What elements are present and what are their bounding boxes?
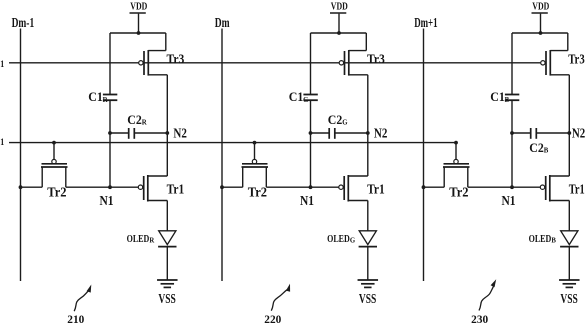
wire Tr2 to N1 to Tr1 gate (220) bbox=[266, 186, 339, 188]
svg-text:VDD: VDD bbox=[331, 1, 348, 12]
VSS ground (220) bbox=[358, 280, 379, 306]
svg-text:Tr3: Tr3 bbox=[167, 51, 185, 66]
svg-text:210: 210 bbox=[67, 314, 84, 323]
wire top rail (230) bbox=[512, 33, 568, 95]
data line D column (220) bbox=[215, 16, 230, 281]
capacitor C1B (230) bbox=[490, 89, 519, 104]
reference numeral 220 with arrow bbox=[264, 284, 290, 323]
svg-text:VDD: VDD bbox=[130, 1, 147, 12]
VDD supply (230) bbox=[532, 1, 550, 33]
wire C1G to N1 (220) bbox=[310, 100, 312, 187]
reference numeral 230 with arrow bbox=[471, 279, 496, 323]
svg-text:OLED: OLED bbox=[529, 233, 552, 245]
node N2 (220) bbox=[366, 125, 388, 140]
wire C1R to N1 (210) bbox=[109, 100, 111, 187]
svg-text:B: B bbox=[505, 97, 510, 104]
svg-text:N1: N1 bbox=[100, 193, 114, 208]
wire data line to Tr2 (230) bbox=[424, 186, 445, 188]
svg-text:Tr2: Tr2 bbox=[449, 185, 468, 200]
Tr2 gate tap dot (210) bbox=[52, 141, 56, 145]
svg-text:N1: N1 bbox=[300, 193, 314, 208]
VDD supply (220) bbox=[330, 1, 348, 33]
svg-text:Tr3: Tr3 bbox=[568, 51, 585, 66]
node N2 (210) bbox=[165, 125, 187, 140]
svg-text:1: 1 bbox=[0, 138, 4, 148]
transistor Tr3 (210) bbox=[139, 50, 185, 76]
svg-text:C2: C2 bbox=[529, 140, 544, 155]
wire data line to Tr2 (210) bbox=[21, 186, 43, 188]
OLEDR diode (210) bbox=[127, 231, 177, 247]
svg-text:N1: N1 bbox=[502, 193, 516, 208]
svg-text:B: B bbox=[551, 238, 556, 245]
svg-text:Tr1: Tr1 bbox=[367, 182, 385, 197]
scan line 2 (select line) bbox=[9, 142, 456, 144]
wire Tr1 to OLEDR (210) bbox=[166, 201, 168, 231]
reference numeral 210 with arrow bbox=[67, 285, 91, 323]
svg-text:Dm: Dm bbox=[215, 16, 230, 31]
svg-text:C1: C1 bbox=[490, 89, 505, 104]
VDD junction dot (210) bbox=[137, 31, 141, 35]
wire Tr3 drain to N2 to Tr1 (230) bbox=[568, 75, 570, 176]
Tr2 gate tap dot (220) bbox=[253, 141, 257, 145]
wire OLEDR to VSS (210) bbox=[166, 247, 168, 280]
svg-text:Tr3: Tr3 bbox=[367, 51, 385, 66]
junction dot C2B left (230) bbox=[510, 131, 514, 135]
capacitor C2G (220) bbox=[311, 112, 368, 139]
wire Tr2 to N1 to Tr1 gate (230) bbox=[468, 186, 541, 188]
junction dot C2R left (210) bbox=[108, 131, 112, 135]
transistor Tr1 (210) bbox=[138, 175, 184, 202]
wire data line to Tr2 (220) bbox=[222, 186, 243, 188]
svg-text:C2: C2 bbox=[328, 112, 343, 127]
OLEDG diode (220) bbox=[327, 231, 377, 247]
svg-text:G: G bbox=[350, 238, 356, 245]
svg-text:G: G bbox=[303, 97, 309, 104]
svg-text:Dm+1: Dm+1 bbox=[414, 16, 437, 31]
transistor Tr1 (220) bbox=[339, 175, 385, 202]
node N1 (230) bbox=[502, 185, 516, 208]
junction dot on data line (210) bbox=[19, 185, 23, 189]
svg-text:N2: N2 bbox=[572, 125, 585, 140]
wire top rail (210) bbox=[110, 33, 166, 95]
svg-text:R: R bbox=[149, 238, 154, 245]
svg-text:VDD: VDD bbox=[532, 1, 549, 12]
wire Tr2 to N1 to Tr1 gate (210) bbox=[66, 186, 139, 188]
transistor Tr3 (220) bbox=[339, 50, 385, 76]
svg-text:C1: C1 bbox=[88, 89, 103, 104]
svg-text:N2: N2 bbox=[173, 125, 187, 140]
svg-text:Tr2: Tr2 bbox=[248, 185, 267, 200]
VSS ground (210) bbox=[157, 280, 178, 306]
svg-text:VSS: VSS bbox=[560, 291, 577, 306]
VDD supply (210) bbox=[130, 1, 148, 33]
wire Tr3 drain to N2 to Tr1 (220) bbox=[367, 75, 369, 176]
svg-text:Dm-1: Dm-1 bbox=[12, 16, 35, 31]
svg-text:C1: C1 bbox=[289, 89, 304, 104]
data line D column (230) bbox=[414, 16, 437, 281]
node N2 (230) bbox=[567, 125, 585, 140]
wire C1B to N1 (230) bbox=[511, 100, 513, 187]
svg-text:Tr1: Tr1 bbox=[569, 182, 585, 197]
OLEDB diode (230) bbox=[529, 231, 579, 247]
transistor Tr2 (210) bbox=[41, 143, 68, 200]
junction dot on data line (230) bbox=[422, 185, 426, 189]
wire OLEDG to VSS (220) bbox=[367, 247, 369, 280]
transistor Tr2 (220) bbox=[242, 143, 269, 200]
node N1 (210) bbox=[100, 185, 114, 208]
svg-text:OLED: OLED bbox=[327, 233, 350, 245]
transistor Tr2 (230) bbox=[443, 143, 470, 200]
svg-text:G: G bbox=[342, 120, 348, 127]
svg-text:R: R bbox=[142, 120, 147, 127]
svg-text:1: 1 bbox=[0, 60, 4, 70]
svg-text:VSS: VSS bbox=[359, 291, 376, 306]
VDD junction dot (230) bbox=[539, 31, 543, 35]
svg-text:Tr1: Tr1 bbox=[167, 182, 185, 197]
wire Tr3 drain to N2 to Tr1 (210) bbox=[166, 75, 168, 176]
scan line 1 (select line) bbox=[9, 62, 540, 64]
transistor Tr3 (230) bbox=[541, 50, 585, 76]
svg-text:C2: C2 bbox=[127, 112, 142, 127]
capacitor C1G (220) bbox=[289, 89, 318, 104]
scan line 1 label "1" bbox=[0, 60, 4, 70]
svg-text:VSS: VSS bbox=[158, 291, 175, 306]
svg-text:R: R bbox=[103, 97, 108, 104]
wire top rail (220) bbox=[311, 33, 367, 95]
capacitor C2B (230) bbox=[512, 128, 569, 155]
wire Tr1 to OLEDG (220) bbox=[367, 201, 369, 231]
capacitor C2R (210) bbox=[110, 112, 167, 139]
node N1 (220) bbox=[300, 185, 314, 208]
wire Tr1 to OLEDB (230) bbox=[568, 201, 570, 231]
junction dot on data line (220) bbox=[220, 185, 224, 189]
svg-text:Tr2: Tr2 bbox=[47, 185, 66, 200]
svg-text:N2: N2 bbox=[374, 125, 388, 140]
transistor Tr1 (230) bbox=[540, 175, 584, 202]
Tr2 gate tap dot (230) bbox=[454, 141, 458, 145]
scan line 2 label "1" bbox=[0, 138, 4, 148]
svg-text:B: B bbox=[544, 148, 549, 155]
svg-text:OLED: OLED bbox=[127, 233, 150, 245]
capacitor C1R (210) bbox=[88, 89, 117, 104]
data line D column (210) bbox=[12, 16, 35, 281]
VDD junction dot (220) bbox=[337, 31, 341, 35]
junction dot C2G left (220) bbox=[309, 131, 313, 135]
wire OLEDB to VSS (230) bbox=[568, 247, 570, 280]
svg-text:230: 230 bbox=[471, 314, 488, 323]
VSS ground (230) bbox=[559, 280, 580, 306]
svg-text:220: 220 bbox=[264, 314, 281, 323]
